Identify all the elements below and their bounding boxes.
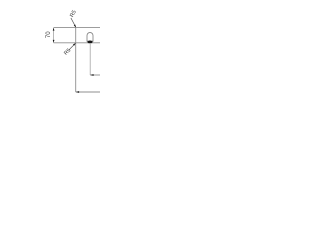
middle dimension line <box>90 74 100 76</box>
pin base ellipse <box>87 41 92 44</box>
bottom dim arrow left <box>76 91 79 93</box>
pin neck tick left <box>87 40 88 41</box>
upper plate line <box>54 27 100 29</box>
lower plate line <box>54 42 100 44</box>
middle dim arrow left <box>90 74 93 76</box>
vertical edge line <box>75 28 77 92</box>
bottom dimension line <box>76 91 100 93</box>
dimension line 70 vertical <box>53 28 55 43</box>
svg-text:R5: R5 <box>69 9 78 18</box>
dim arrow up <box>53 28 55 31</box>
leader R5 bottom arrowhead <box>73 43 76 46</box>
svg-text:R5: R5 <box>63 48 72 57</box>
pin neck tick right <box>92 40 93 41</box>
leader R5 top arrowhead <box>74 25 76 28</box>
dim arrow down <box>53 40 55 43</box>
leader R5 bottom <box>69 43 76 50</box>
extension line from pin center <box>89 44 91 75</box>
svg-text:70: 70 <box>46 31 52 38</box>
leader R5 top <box>71 18 76 27</box>
pin dome outline <box>87 33 93 42</box>
